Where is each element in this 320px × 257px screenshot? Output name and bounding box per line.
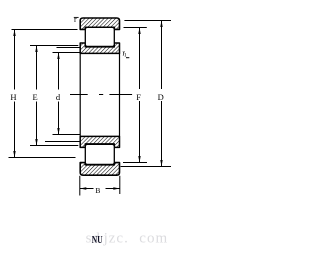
svg-text:B: B	[95, 186, 100, 195]
svg-text:D: D	[158, 92, 164, 102]
svg-text:com: com	[139, 230, 168, 246]
svg-text:F: F	[136, 92, 141, 102]
svg-text:jzc.: jzc.	[103, 230, 129, 246]
svg-text:NU: NU	[92, 234, 103, 246]
svg-text:E: E	[33, 92, 38, 102]
svg-text:r: r	[74, 15, 77, 24]
svg-text:H: H	[10, 92, 16, 102]
svg-text:d: d	[56, 92, 61, 102]
